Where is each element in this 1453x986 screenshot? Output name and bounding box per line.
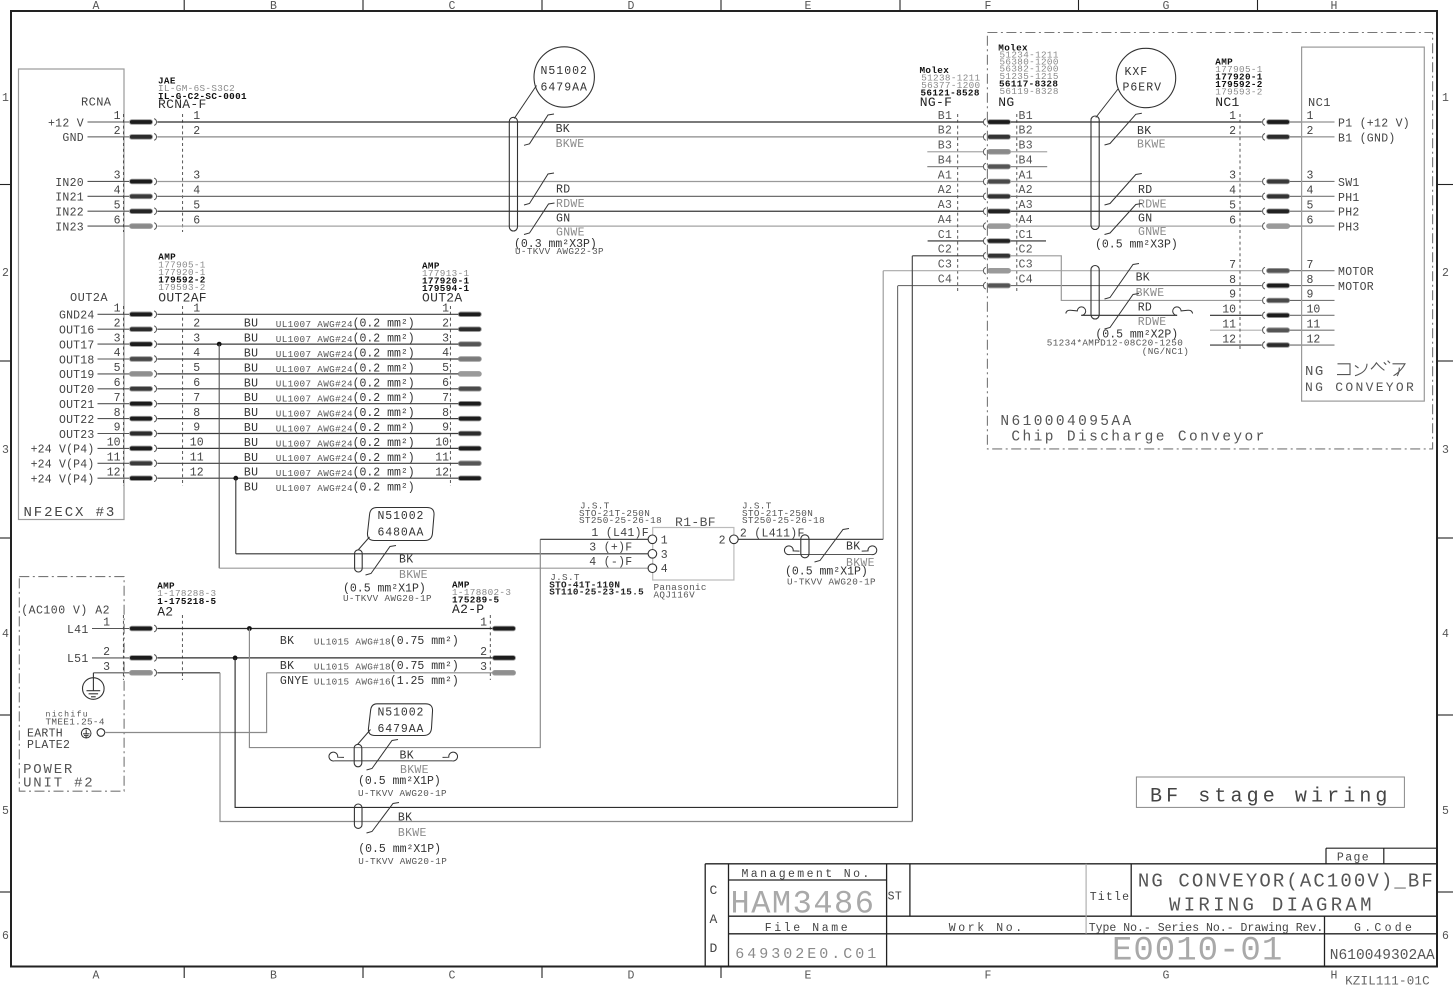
wire colour slash GN/GNWE [524, 203, 555, 235]
OUT2AF pin 1 lead [98, 313, 131, 315]
svg-text:11: 11 [1222, 318, 1236, 331]
svg-text:5: 5 [1442, 805, 1449, 818]
OUT2AF pin 5 [130, 371, 157, 378]
svg-text:1: 1 [2, 92, 9, 105]
NG connector pin C4 [983, 282, 1010, 289]
wire label BU UL1007 row 5 [244, 377, 415, 390]
svg-text:2: 2 [103, 646, 110, 659]
pigtail curl right terminal2 [862, 546, 877, 555]
svg-text:A4: A4 [938, 214, 952, 227]
svg-text:GN: GN [1138, 212, 1152, 225]
svg-text:11: 11 [1307, 318, 1321, 331]
svg-text:P1 (+12 V): P1 (+12 V) [1338, 118, 1410, 131]
RCNA pin 2 [130, 133, 157, 140]
svg-text:12: 12 [1222, 333, 1236, 346]
svg-text:UL1015 AWG#18: UL1015 AWG#18 [314, 661, 391, 672]
svg-text:OUT16: OUT16 [59, 325, 95, 338]
svg-text:9: 9 [1307, 289, 1314, 302]
svg-text:7: 7 [1307, 259, 1314, 272]
svg-text:N610004095AA: N610004095AA [1000, 414, 1133, 430]
cable tie marker L51 pair [354, 804, 362, 828]
svg-text:3: 3 [193, 332, 200, 345]
junction L51 [233, 656, 238, 661]
RCNA pin 5 [130, 208, 157, 215]
svg-text:H: H [1331, 0, 1338, 13]
OUT2AF pin 7 [130, 400, 157, 407]
unit box NF2ECX #3 [19, 69, 125, 520]
svg-text:3: 3 [1307, 170, 1314, 183]
NG connector pin C2 [983, 252, 1010, 259]
wire C4 to NC1 pin8 [1011, 285, 1262, 287]
svg-text:RD: RD [556, 183, 570, 196]
svg-text:NC1: NC1 [1215, 95, 1239, 110]
OUT2AF pin 1 [130, 311, 157, 318]
svg-text:11: 11 [107, 452, 121, 465]
wire L51 [157, 657, 492, 659]
wire NG A3 to NC1 [1011, 210, 1262, 212]
svg-text:649302E0.C01: 649302E0.C01 [735, 946, 879, 963]
RCNA pin 1 lead [88, 121, 131, 123]
svg-text:A: A [93, 970, 100, 983]
JST part labels left [579, 501, 662, 526]
A2 pin 3 [130, 669, 157, 676]
wire IN22/A3 GN [157, 210, 983, 212]
JST part labels right [742, 501, 825, 526]
svg-text:C: C [449, 0, 456, 13]
OUT2A pin 3 [458, 342, 481, 347]
OUT2A pin 2 [458, 327, 481, 332]
wire label BU UL1007 row 4 [244, 362, 415, 375]
OUT2A pin 4 [458, 357, 481, 362]
svg-text:IN23: IN23 [55, 221, 84, 234]
NG-F dashed line [957, 114, 959, 292]
OUT2AF pin 10 lead [98, 447, 131, 449]
ring terminal earth plate [97, 729, 105, 737]
svg-text:UL1007 AWG#24: UL1007 AWG#24 [276, 334, 353, 345]
NC1 pin 6 [1263, 223, 1290, 230]
svg-text:4: 4 [193, 347, 200, 360]
stub wire NC1 pin11 [1210, 329, 1262, 331]
svg-text:N51002: N51002 [541, 65, 588, 78]
svg-text:KZIL111-01C: KZIL111-01C [1345, 975, 1430, 986]
svg-text:D: D [628, 970, 635, 983]
NC1 pin 1 [1263, 119, 1290, 126]
A2 pin 2 lead [92, 657, 131, 659]
title block light divider [1085, 864, 1087, 934]
svg-text:9: 9 [193, 422, 200, 435]
svg-text:C: C [710, 883, 718, 898]
svg-text:ST250-25-26-18: ST250-25-26-18 [742, 515, 825, 526]
svg-text:6: 6 [442, 377, 449, 390]
stub wire NC1 pin10 [1210, 314, 1262, 316]
svg-text:OUT17: OUT17 [59, 339, 95, 352]
svg-text:(1.25 mm²): (1.25 mm²) [390, 675, 459, 688]
svg-text:UL1007 AWG#24: UL1007 AWG#24 [276, 394, 353, 405]
svg-text:UL1007 AWG#24: UL1007 AWG#24 [276, 409, 353, 420]
wire label BU UL1007 row 11 [244, 467, 415, 480]
svg-text:RCNA-F: RCNA-F [158, 97, 207, 112]
svg-text:L51: L51 [67, 653, 89, 666]
wire NG A2 to NC1 [1011, 195, 1262, 197]
svg-text:2: 2 [1442, 267, 1449, 280]
stub wire C1 right [1011, 240, 1047, 242]
wire OUT2A BU 6 [157, 388, 458, 390]
riser C4 to L51 pair [897, 286, 899, 808]
svg-text:OUT2A: OUT2A [422, 291, 463, 306]
svg-text:3: 3 [480, 661, 487, 674]
NC1 pin 8 [1263, 282, 1290, 289]
wire +24V to terminal 3 [236, 553, 648, 555]
stub wire NC1 pin12 [1210, 344, 1262, 346]
wire label BU UL1007 row 12 [244, 482, 415, 495]
NC1 connector dashed line [1239, 114, 1241, 351]
wire C2 to NC1 pin9 [1011, 256, 1262, 301]
svg-text:4: 4 [1442, 628, 1449, 641]
svg-text:BF stage wiring: BF stage wiring [1150, 786, 1392, 809]
NC1 pin 6 stub to box [1290, 225, 1302, 227]
svg-text:NF2ECX #3: NF2ECX #3 [24, 505, 117, 521]
wire OUT2A BU 10 [157, 447, 458, 449]
svg-text:G: G [1163, 0, 1170, 13]
svg-text:2: 2 [480, 646, 487, 659]
wire label GNYE [280, 675, 459, 688]
wire colour slash BK/BKWE motor [1105, 264, 1140, 300]
wire +12V/B1 BK [157, 121, 983, 123]
svg-text:UL1007 AWG#24: UL1007 AWG#24 [276, 423, 353, 434]
NC1 pin 5 stub to box [1290, 210, 1302, 212]
svg-text:A4: A4 [1019, 214, 1033, 227]
callout leader 6479AA low [358, 730, 371, 745]
svg-text:4: 4 [1229, 185, 1236, 198]
OUT2AF pin 11 [130, 460, 157, 467]
svg-text:D: D [710, 941, 718, 956]
label Panasonic AQJ116V [654, 582, 707, 601]
svg-text:8: 8 [442, 407, 449, 420]
OUT2A pin 9 [458, 431, 481, 436]
wire terminal1 horizontal [540, 538, 648, 540]
NC1 pin 9 [1263, 297, 1290, 304]
svg-text:TMEE1.25-4: TMEE1.25-4 [46, 717, 105, 728]
wire colour slash RD/RDWE motor [1105, 294, 1140, 330]
svg-text:PH1: PH1 [1338, 192, 1360, 205]
OUT2AF pin 2 [130, 326, 157, 333]
svg-text:BK: BK [399, 553, 413, 566]
RCNA-F connector dashed line [182, 114, 184, 232]
wire OUT17 to terminal 4 [219, 567, 648, 569]
svg-text:PH3: PH3 [1338, 222, 1360, 235]
svg-text:KXF: KXF [1125, 66, 1149, 79]
wire colour slash terminal2 pair [815, 529, 850, 563]
svg-text:N610049302AA: N610049302AA [1330, 948, 1435, 964]
svg-text:BK: BK [1136, 272, 1150, 285]
callout leader [514, 86, 536, 119]
wire OUT2A BU 2 [157, 328, 458, 330]
svg-text:5: 5 [114, 199, 121, 212]
svg-text:8: 8 [193, 407, 200, 420]
svg-text:C4: C4 [938, 273, 952, 286]
NC1 pin 10 inner lead [1302, 314, 1335, 316]
pigtail curl left L41 pair [329, 752, 344, 761]
svg-text:5: 5 [1307, 199, 1314, 212]
NC1 pin 3 inner lead [1302, 180, 1335, 182]
svg-text:B2: B2 [938, 125, 952, 138]
OUT2A pin 10 [458, 446, 481, 451]
wire OUT2A BU 9 [157, 433, 458, 435]
svg-text:9: 9 [114, 422, 121, 435]
terminal circle 4 [648, 564, 657, 573]
svg-text:3: 3 [1442, 444, 1449, 457]
JST part labels lower [549, 572, 644, 597]
callout circle KXF P6ERV [1116, 48, 1175, 107]
wire A2 pin3 drop to pair [220, 673, 912, 822]
svg-text:4: 4 [114, 347, 121, 360]
svg-text:3: 3 [114, 170, 121, 183]
svg-text:OUT2AF: OUT2AF [158, 291, 207, 306]
svg-text:1: 1 [103, 617, 110, 630]
NC1 pin 12 [1263, 342, 1290, 349]
svg-text:6: 6 [193, 377, 200, 390]
zone numbers left [0, 92, 11, 943]
svg-text:1: 1 [1229, 110, 1236, 123]
OUT2AF connector dashed line [123, 306, 125, 486]
pigtail pair wire terminal2 [790, 554, 871, 556]
pigtail curl left terminal2 [784, 546, 799, 555]
svg-text:C3: C3 [938, 259, 952, 272]
svg-text:B1: B1 [938, 110, 952, 123]
svg-text:Title: Title [1090, 891, 1131, 904]
svg-text:ST250-25-26-18: ST250-25-26-18 [579, 515, 662, 526]
svg-text:C1: C1 [1019, 229, 1033, 242]
page box [1326, 848, 1437, 864]
NC1 pin 7 inner lead [1302, 270, 1335, 272]
svg-text:2: 2 [442, 317, 449, 330]
OUT2AF connector dashed line right [182, 306, 184, 486]
svg-text:BK: BK [280, 635, 294, 648]
svg-text:10: 10 [435, 437, 449, 450]
svg-text:GND: GND [62, 132, 84, 145]
svg-text:5: 5 [2, 805, 9, 818]
JAE connector part labels [158, 76, 247, 113]
svg-text:E0010-01: E0010-01 [1112, 933, 1283, 971]
svg-text:A2: A2 [1019, 184, 1033, 197]
svg-text:BK: BK [1137, 125, 1151, 138]
wire C3 from SSR riser [883, 270, 983, 272]
wire colour slash GN/GNWE NC [1105, 204, 1142, 235]
unit box POWER UNIT #2 [19, 577, 124, 792]
svg-text:BK: BK [398, 811, 412, 824]
svg-text:UL1007 AWG#24: UL1007 AWG#24 [276, 453, 353, 464]
svg-text:1: 1 [480, 617, 487, 630]
stub wire B3 right [1011, 151, 1048, 153]
wire OUT2A BU 5 [157, 373, 458, 375]
svg-text:U-TKVV AWG20-1P: U-TKVV AWG20-1P [787, 576, 876, 587]
svg-text:(0.5 mm²X1P): (0.5 mm²X1P) [358, 843, 441, 856]
svg-text:ST110-25-23-15.5: ST110-25-23-15.5 [549, 587, 644, 598]
svg-text:GNYE: GNYE [280, 675, 309, 688]
terminal circle 3 [648, 550, 657, 559]
svg-text:4: 4 [442, 347, 449, 360]
OUT2AF pin 10 [130, 445, 157, 452]
OUT2AF pin 7 lead [98, 403, 131, 405]
svg-text:BK: BK [846, 540, 860, 553]
svg-text:9: 9 [442, 422, 449, 435]
svg-text:8: 8 [114, 407, 121, 420]
svg-text:C4: C4 [1019, 273, 1033, 286]
svg-text:4: 4 [2, 628, 9, 641]
svg-text:6: 6 [1229, 214, 1236, 227]
wire L41 drop to pair [249, 539, 540, 747]
wire L51 drop to pair [235, 658, 898, 808]
RCNA pin 6 lead [88, 225, 131, 227]
wire label BU UL1007 row 3 [244, 348, 415, 361]
pigtail curl right row10 [1173, 307, 1193, 315]
svg-text:AQJ116V: AQJ116V [654, 589, 696, 600]
wire colour slash RD/RDWE NC [1105, 174, 1142, 206]
svg-text:BKWE: BKWE [1136, 287, 1165, 300]
callout leader 6480AA [359, 537, 370, 550]
svg-text:UNIT #2: UNIT #2 [23, 776, 94, 792]
svg-text:B: B [270, 970, 277, 983]
OUT2AF pin 8 lead [98, 418, 131, 420]
wire C4 from earth riser [898, 285, 983, 287]
wire colour slash L41 pair [367, 740, 399, 771]
cable tie marker 0.5mm x3P [1091, 116, 1099, 230]
junction OUT17 to SSR [217, 342, 222, 347]
wire OUT2A BU 3 [157, 343, 458, 345]
riser C3 to SSR terminal2 [882, 271, 884, 540]
A2-P connector dashed line [489, 615, 491, 680]
protective earth symbol A2 pin3 [83, 673, 105, 700]
pigtail curl left row10 [1066, 307, 1086, 315]
terminal circle 1 [648, 535, 657, 544]
KXF callout leader [1096, 89, 1118, 118]
svg-text:(AC100 V) A2: (AC100 V) A2 [21, 605, 110, 618]
OUT2AF pin 12 lead [98, 477, 131, 479]
OUT2A pin 11 [458, 461, 481, 466]
wire OUT2A BU 7 [157, 403, 458, 405]
svg-text:N51002: N51002 [378, 707, 425, 720]
svg-text:OUT22: OUT22 [59, 414, 95, 427]
svg-text:BU: BU [244, 482, 258, 495]
NG connector pin C1 [983, 238, 1010, 245]
svg-text:10: 10 [107, 437, 121, 450]
svg-text:2: 2 [193, 317, 200, 330]
A2 pin 1 lead [92, 628, 131, 630]
svg-text:12: 12 [190, 466, 204, 479]
wire GNYE [267, 672, 493, 674]
NG connector pin B1 [983, 119, 1010, 126]
wire colour slash L51 pair [367, 803, 400, 834]
svg-text:A: A [93, 0, 100, 13]
svg-text:6: 6 [193, 214, 200, 227]
svg-text:U-TKVV AWG20-1P: U-TKVV AWG20-1P [343, 593, 432, 604]
zone letters top [93, 0, 1338, 13]
svg-text:B4: B4 [1019, 154, 1033, 167]
svg-text:1: 1 [114, 303, 121, 316]
svg-text:A3: A3 [1019, 199, 1033, 212]
svg-text:6480AA: 6480AA [378, 527, 425, 540]
pigtail pair wire L41 [335, 760, 453, 762]
svg-text:BK: BK [556, 123, 570, 136]
terminal circle 2 [730, 535, 739, 544]
RCNA pin 4 lead [88, 195, 131, 197]
svg-text:6: 6 [114, 214, 121, 227]
A2 connector dashed line right [181, 615, 183, 680]
wire colour slash BK/BKWE [524, 114, 554, 145]
wire label BU UL1007 row 9 [244, 437, 415, 450]
svg-text:4: 4 [1307, 185, 1314, 198]
NC1 pin 12 stub to box [1290, 344, 1302, 346]
wire C2 from L51 riser [912, 255, 983, 257]
svg-text:A2: A2 [938, 184, 952, 197]
svg-text:3: 3 [2, 444, 9, 457]
svg-text:NG-F: NG-F [920, 95, 952, 110]
wire label BK L51 [280, 660, 459, 673]
svg-text:GN: GN [556, 212, 570, 225]
svg-text:4 (-)F: 4 (-)F [589, 556, 632, 569]
svg-text:2: 2 [1307, 125, 1314, 138]
svg-text:12: 12 [1307, 333, 1321, 346]
OUT2AF pin 3 [130, 341, 157, 348]
wire earth plate to A2-P pin3 [105, 673, 267, 733]
callout hexagon N51002 6480AA [367, 508, 434, 541]
NC1 pin 11 stub to box [1290, 329, 1302, 331]
NC1 pin 7 [1263, 267, 1290, 274]
stub wire C1 left [928, 240, 984, 242]
svg-text:H: H [1331, 970, 1338, 983]
svg-text:UL1007 AWG#24: UL1007 AWG#24 [276, 349, 353, 360]
NC1 pin 9 inner lead [1302, 299, 1335, 301]
svg-text:UL1007 AWG#24: UL1007 AWG#24 [276, 364, 353, 375]
wire label BU UL1007 row 8 [244, 422, 415, 435]
svg-text:(0.5 mm²X3P): (0.5 mm²X3P) [1095, 239, 1178, 252]
OUT2AF pin 3 lead [98, 343, 131, 345]
NG dashed line [1016, 114, 1018, 292]
svg-text:5: 5 [193, 362, 200, 375]
svg-text:P6ERV: P6ERV [1123, 82, 1163, 95]
NG connector pin B4 [983, 163, 1010, 170]
svg-text:SW1: SW1 [1338, 177, 1360, 190]
svg-text:10: 10 [190, 437, 204, 450]
svg-text:+24 V(P4): +24 V(P4) [31, 459, 95, 472]
svg-text:A2-P: A2-P [452, 602, 484, 617]
svg-text:OUT19: OUT19 [59, 369, 95, 382]
svg-text:+12 V: +12 V [48, 117, 84, 130]
wire IN20/A1 RD [157, 180, 983, 182]
NG connector pin C3 [983, 267, 1010, 274]
svg-text:11: 11 [435, 452, 449, 465]
svg-text:BKWE: BKWE [399, 569, 428, 582]
wire label BU UL1007 row 1 [244, 318, 415, 331]
svg-text:5: 5 [193, 199, 200, 212]
OUT2AF pin 6 [130, 385, 157, 392]
OUT2AF pin 11 lead [98, 462, 131, 464]
A2 pin 3 lead [93, 672, 130, 674]
zone numbers right [1437, 92, 1453, 943]
svg-text:N51002: N51002 [378, 510, 425, 523]
callout circle N51002 6479AA [534, 47, 594, 107]
svg-text:RCNA: RCNA [81, 96, 112, 110]
junction +24V to SSR [233, 476, 238, 481]
CAD vertical letters [710, 883, 718, 956]
svg-text:NG CONVEYOR: NG CONVEYOR [1305, 380, 1416, 395]
svg-text:A: A [710, 912, 718, 927]
zone letters bottom [93, 967, 1338, 983]
wire label BU UL1007 row 7 [244, 407, 415, 420]
svg-text:BK: BK [280, 660, 294, 673]
svg-text:2: 2 [1229, 125, 1236, 138]
svg-text:NG: NG [1305, 364, 1325, 380]
